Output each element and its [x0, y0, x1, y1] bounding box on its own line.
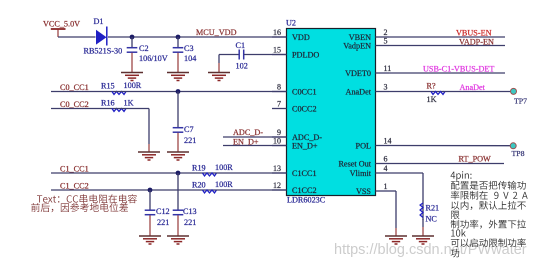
svg-text:VCC_5.0V: VCC_5.0V	[43, 20, 80, 29]
svg-text:C0_CC2: C0_CC2	[60, 100, 89, 109]
net label VBUS-EN	[456, 29, 492, 38]
svg-text:1: 1	[384, 182, 388, 191]
wire pin6 RT_POW	[389, 163, 504, 165]
svg-text:8: 8	[277, 83, 281, 92]
net label ADC_D-	[233, 128, 263, 137]
wire pin4 Vlimit to R21	[389, 173, 423, 220]
pin name PDLDO	[292, 51, 319, 60]
pin 15 stub left	[272, 46, 287, 55]
svg-text:D1: D1	[94, 17, 104, 26]
net label MCU_VDD	[196, 28, 237, 37]
wire R21 to ground	[422, 219, 424, 236]
svg-text:100R: 100R	[215, 180, 233, 189]
wire pin14 POL to TP8	[389, 145, 510, 147]
svg-text:U2: U2	[286, 19, 296, 28]
ground under C2	[121, 73, 143, 81]
pin name C0CC1	[292, 88, 317, 97]
wire pin2 VBUS-EN	[389, 36, 505, 38]
ground under C7	[167, 152, 189, 160]
svg-text:TP7: TP7	[514, 96, 527, 105]
svg-text:POL: POL	[356, 142, 371, 151]
svg-text:VDD: VDD	[292, 33, 310, 42]
svg-text:LDR6023C: LDR6023C	[287, 195, 326, 204]
svg-text:R21: R21	[426, 203, 440, 212]
wire pin11 VDET0	[389, 72, 505, 74]
resistor R20 100R	[192, 180, 233, 193]
resistor R15 100R	[101, 81, 142, 95]
pin name POL	[356, 142, 371, 151]
resistor R? 1K	[427, 81, 446, 104]
pin 9 stub left	[272, 128, 287, 137]
wire C0_CC2 to R16	[51, 108, 114, 110]
capacitor C1 102	[219, 41, 287, 71]
pin 6 stub right	[376, 155, 390, 164]
junction at C3	[176, 35, 181, 40]
ground under C13	[167, 236, 189, 244]
svg-text:221: 221	[184, 136, 196, 145]
svg-text:C0CC2: C0CC2	[292, 105, 317, 114]
svg-text:R20: R20	[192, 181, 206, 190]
pin name C1CC2	[292, 186, 317, 195]
pin 1 stub right	[376, 182, 390, 191]
note text 4pin config	[450, 171, 527, 257]
svg-text:100R: 100R	[124, 81, 142, 90]
svg-text:AnaDet: AnaDet	[460, 83, 486, 92]
pin name VDD	[292, 33, 310, 42]
svg-text:10: 10	[273, 137, 281, 146]
capacitor C13 221	[173, 173, 197, 236]
capacitor C12 221	[145, 190, 170, 236]
wire R? to TP7	[444, 91, 511, 93]
svg-text:R16: R16	[101, 98, 115, 107]
pin name Reset Out	[338, 160, 371, 169]
svg-text:RB521S-30: RB521S-30	[84, 47, 123, 56]
svg-text:221: 221	[157, 218, 169, 227]
ground under R21	[412, 236, 434, 244]
note text CC resistors	[31, 194, 137, 212]
svg-text:VADP-EN: VADP-EN	[459, 37, 494, 46]
net label VADP-EN	[459, 37, 494, 46]
svg-text:MCU_VDD: MCU_VDD	[196, 28, 237, 37]
wire R20 to pin12	[216, 189, 287, 191]
junction at C12	[148, 188, 153, 193]
op-amp U2 LDR6023C body	[286, 19, 376, 205]
svg-text:13: 13	[273, 164, 281, 173]
svg-text:6: 6	[384, 155, 388, 164]
svg-text:4: 4	[384, 164, 388, 173]
svg-text:EN_D+: EN_D+	[292, 142, 318, 151]
net label EN_D+	[233, 138, 259, 147]
svg-text:C12: C12	[156, 207, 170, 216]
pin 10 stub left	[272, 137, 287, 146]
pin 12 stub left	[272, 181, 287, 190]
ground under C3	[167, 73, 189, 81]
watermark	[334, 242, 527, 258]
svg-text:VBUS-EN: VBUS-EN	[456, 29, 492, 38]
svg-text:3: 3	[384, 83, 388, 92]
junction at C13	[176, 171, 181, 176]
wire ADC_D- to pin9	[223, 136, 287, 138]
svg-text:Vlimit: Vlimit	[350, 169, 372, 178]
wire pin5 VADP-EN	[389, 45, 505, 47]
capacitor C7 221	[173, 92, 197, 153]
pin 13 stub left	[272, 164, 287, 173]
wire R16 to ground drop	[114, 109, 149, 153]
ground under C0_CC2 drop	[138, 152, 160, 160]
pin 14 stub right	[376, 137, 392, 146]
wire R19 to pin13	[216, 172, 287, 174]
resistor R16 1K	[101, 98, 134, 111]
wire D1 cathode to pin16 MCU_VDD rail	[108, 36, 287, 38]
wire R15 to pin8	[114, 91, 287, 93]
pin 2 stub right	[376, 28, 390, 37]
capacitor C2 106/10V	[127, 37, 168, 73]
svg-text:C1CC2: C1CC2	[292, 186, 317, 195]
svg-text:ADC_D-: ADC_D-	[233, 128, 263, 137]
svg-text:PDLDO: PDLDO	[292, 51, 319, 60]
wire C1 to ground	[218, 55, 220, 73]
svg-text:R?: R?	[427, 81, 436, 90]
net label C1_CC2	[60, 181, 89, 190]
wire C1_CC1 to R19	[51, 172, 216, 174]
net label AnaDet	[460, 83, 486, 92]
svg-text:11: 11	[384, 64, 392, 73]
svg-text:C1_CC1: C1_CC1	[60, 164, 89, 173]
pin 7 stub left	[272, 100, 287, 109]
ground under C12	[139, 236, 161, 244]
svg-text:12: 12	[273, 181, 281, 190]
net label C1_CC1	[60, 164, 89, 173]
svg-text:221: 221	[184, 218, 196, 227]
pin 11 stub right	[376, 64, 392, 73]
pin name VSS	[356, 187, 371, 196]
test point TP7	[511, 88, 528, 105]
junction at C2	[130, 35, 135, 40]
ground under C1	[208, 73, 230, 81]
svg-text:USB-C1-VBUS-DET: USB-C1-VBUS-DET	[423, 65, 494, 74]
pin name VDET0	[345, 69, 371, 78]
svg-text:1K: 1K	[124, 98, 134, 107]
net label C0_CC2	[60, 100, 89, 109]
svg-text:C2: C2	[139, 44, 149, 53]
svg-text:102: 102	[236, 62, 248, 71]
svg-text:C1CC1: C1CC1	[292, 169, 317, 178]
svg-text:NC: NC	[426, 214, 438, 223]
svg-text:RT_POW: RT_POW	[459, 155, 492, 164]
svg-text:14: 14	[384, 137, 392, 146]
svg-text:5: 5	[384, 37, 388, 46]
test point TP8	[510, 143, 524, 158]
junction at C7	[176, 89, 181, 94]
resistor R19 100R	[192, 163, 233, 176]
pin name AnaDet	[346, 88, 372, 97]
diode D1 RB521S-30	[84, 17, 123, 55]
svg-text:AnaDet: AnaDet	[346, 88, 372, 97]
net label C0_CC1	[60, 83, 89, 92]
svg-text:1K: 1K	[427, 95, 437, 104]
wire VCC to D1 anode	[58, 36, 96, 38]
pin 16 stub left	[272, 28, 287, 37]
svg-text:106/10V: 106/10V	[139, 54, 168, 63]
svg-text:Reset Out: Reset Out	[338, 160, 371, 169]
svg-text:15: 15	[273, 46, 281, 55]
svg-text:R15: R15	[101, 81, 115, 90]
pin name C0CC2	[292, 105, 317, 114]
svg-text:VSS: VSS	[356, 187, 371, 196]
svg-text:C0_CC1: C0_CC1	[60, 83, 89, 92]
pin name C1CC1	[292, 169, 317, 178]
svg-text:C0CC1: C0CC1	[292, 88, 317, 97]
capacitor C3 104	[173, 37, 197, 73]
ground under VSS	[385, 236, 407, 244]
svg-text:C7: C7	[184, 125, 194, 134]
pin name ADC_D-	[292, 133, 322, 142]
net label RT_POW	[459, 155, 492, 164]
svg-text:C3: C3	[184, 44, 194, 53]
svg-text:VadpEN: VadpEN	[343, 42, 371, 51]
svg-text:7: 7	[277, 100, 281, 109]
pin name EN_D+	[292, 142, 318, 151]
pin name Vlimit	[350, 169, 372, 178]
svg-text:C1_CC2: C1_CC2	[60, 181, 89, 190]
wire pin3 to R?	[389, 91, 444, 93]
svg-text:16: 16	[273, 28, 281, 37]
pin 3 stub right	[376, 83, 390, 92]
svg-text:C1: C1	[236, 41, 246, 50]
wire pin1 VSS to ground	[389, 191, 396, 236]
pin name VBEN	[349, 33, 371, 42]
wire C1_CC2 to R20	[51, 189, 216, 191]
svg-text:TP8: TP8	[512, 149, 525, 158]
svg-text:R19: R19	[192, 164, 206, 173]
svg-text:VDET0: VDET0	[345, 69, 371, 78]
power flag VCC_5.0V	[43, 20, 80, 38]
net label USB-C1-VBUS-DET	[423, 65, 494, 74]
svg-text:100R: 100R	[215, 163, 233, 172]
pin name VadpEN	[343, 42, 371, 51]
pin 4 stub right	[376, 164, 390, 173]
svg-text:https://blog.csdn.net/PWwater: https://blog.csdn.net/PWwater	[334, 242, 527, 258]
resistor R21 NC	[420, 203, 439, 223]
svg-text:C13: C13	[183, 207, 197, 216]
wire C0_CC1 to R15	[51, 91, 114, 93]
pin 8 stub left	[272, 83, 287, 92]
wire EN_D+ to pin10	[223, 145, 287, 147]
pin 5 stub right	[376, 37, 390, 46]
svg-text:104: 104	[184, 54, 196, 63]
